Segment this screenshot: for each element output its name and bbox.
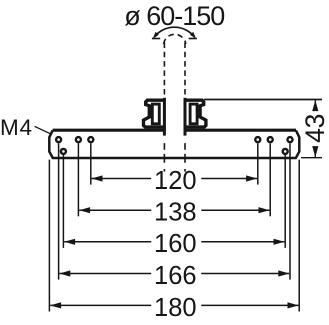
svg-text:160: 160 — [154, 230, 197, 258]
dashed center line right — [184, 43, 186, 96]
dimension 43: top extension line — [204, 99, 322, 101]
center slot left edge — [163, 98, 166, 136]
extension lines for dimensions 120/138/160/166/180 — [49, 143, 299, 311]
arc arrowhead left — [153, 32, 159, 39]
right clamp rail profile — [184, 100, 206, 127]
svg-text:180: 180 — [154, 294, 197, 322]
hole centers — [57, 138, 291, 152]
dimension 43: bottom extension line — [301, 157, 322, 159]
arc arrowhead right — [190, 32, 196, 39]
left clamp rail profile — [144, 100, 166, 127]
range indicator arc — [152, 27, 197, 38]
svg-text:138: 138 — [154, 199, 197, 227]
hidden slot line right (dashed through plate) — [184, 143, 186, 172]
hidden slot line left (dashed through plate) — [163, 143, 165, 172]
base plate top edge right segment — [186, 129, 296, 132]
dimension 43: arrowheads — [312, 100, 318, 111]
dashed center line left — [163, 43, 165, 96]
dashed pipe outline arc — [164, 34, 186, 44]
base plate outline — [49, 130, 299, 158]
dimension 43: line — [314, 100, 316, 109]
svg-text:M4: M4 — [0, 115, 33, 140]
M4 leader line — [35, 126, 51, 134]
dimension arrowheads — [50, 175, 298, 308]
center slot right edge — [184, 98, 187, 136]
svg-text:120: 120 — [154, 167, 197, 195]
dimension lines 120/138/160/166/180 — [50, 179, 298, 306]
dimension value labels — [154, 167, 197, 322]
M4 mounting holes — [55, 136, 294, 155]
svg-text:43: 43 — [300, 114, 329, 143]
svg-text:166: 166 — [154, 262, 197, 290]
base plate top edge left segment — [53, 129, 163, 132]
